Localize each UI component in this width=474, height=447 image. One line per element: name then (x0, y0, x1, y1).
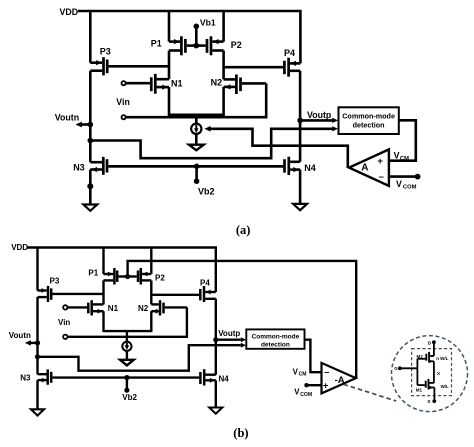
svg-text:P4: P4 (284, 48, 295, 58)
svg-text:+: + (377, 156, 383, 167)
svg-text:N4: N4 (304, 163, 316, 173)
svg-text:Voutn: Voutn (55, 112, 79, 122)
svg-text:S: S (427, 399, 430, 404)
svg-text:A: A (361, 163, 368, 174)
svg-text:COM: COM (403, 185, 417, 191)
svg-text:(a): (a) (236, 223, 251, 237)
svg-text:P2: P2 (155, 274, 165, 283)
svg-text:V: V (394, 151, 400, 161)
svg-text:Vin: Vin (58, 318, 70, 327)
svg-text:Vb1: Vb1 (200, 18, 216, 28)
svg-text:N1: N1 (108, 304, 119, 313)
svg-text:N2: N2 (211, 78, 223, 88)
svg-text:–: – (324, 367, 329, 377)
svg-text:(b): (b) (233, 426, 248, 440)
svg-text:+: + (323, 380, 329, 391)
svg-text:Vin: Vin (116, 97, 130, 107)
svg-text:P2: P2 (231, 40, 242, 50)
svg-text:Vb2: Vb2 (122, 393, 137, 402)
svg-text:N3: N3 (20, 374, 31, 383)
svg-text:CM: CM (299, 372, 307, 378)
svg-text:P3: P3 (100, 47, 111, 57)
svg-text:N4: N4 (219, 375, 230, 384)
svg-text:X: X (437, 371, 440, 376)
svg-text:P3: P3 (50, 277, 60, 286)
svg-text:detection: detection (353, 121, 385, 130)
svg-text:Vb2: Vb2 (198, 186, 215, 196)
svg-text:VDD: VDD (11, 243, 28, 252)
svg-text:detection: detection (261, 341, 290, 348)
svg-text:N3: N3 (73, 162, 85, 172)
svg-text:CM: CM (400, 156, 409, 162)
svg-text:M2: M2 (417, 354, 424, 359)
svg-text:Voutn: Voutn (9, 331, 31, 340)
svg-text:n W/L: n W/L (436, 356, 448, 361)
svg-text:Voutp: Voutp (218, 329, 240, 338)
svg-text:V: V (396, 179, 402, 189)
svg-text:P1: P1 (88, 269, 98, 278)
svg-text:M1: M1 (416, 388, 423, 393)
svg-text:G: G (394, 366, 398, 371)
svg-text:P4: P4 (200, 278, 210, 287)
svg-text:P1: P1 (151, 38, 162, 48)
svg-text:VDD: VDD (60, 7, 79, 17)
svg-text:Common-mode: Common-mode (252, 333, 300, 340)
svg-text:N2: N2 (138, 304, 149, 313)
svg-text:-A: -A (335, 375, 345, 386)
svg-text:Common-mode: Common-mode (342, 111, 395, 120)
svg-text:N1: N1 (171, 78, 183, 88)
svg-text:W/L: W/L (441, 384, 449, 389)
svg-text:–: – (379, 172, 384, 183)
svg-text:COM: COM (300, 392, 312, 398)
svg-text:Voutp: Voutp (307, 110, 332, 120)
